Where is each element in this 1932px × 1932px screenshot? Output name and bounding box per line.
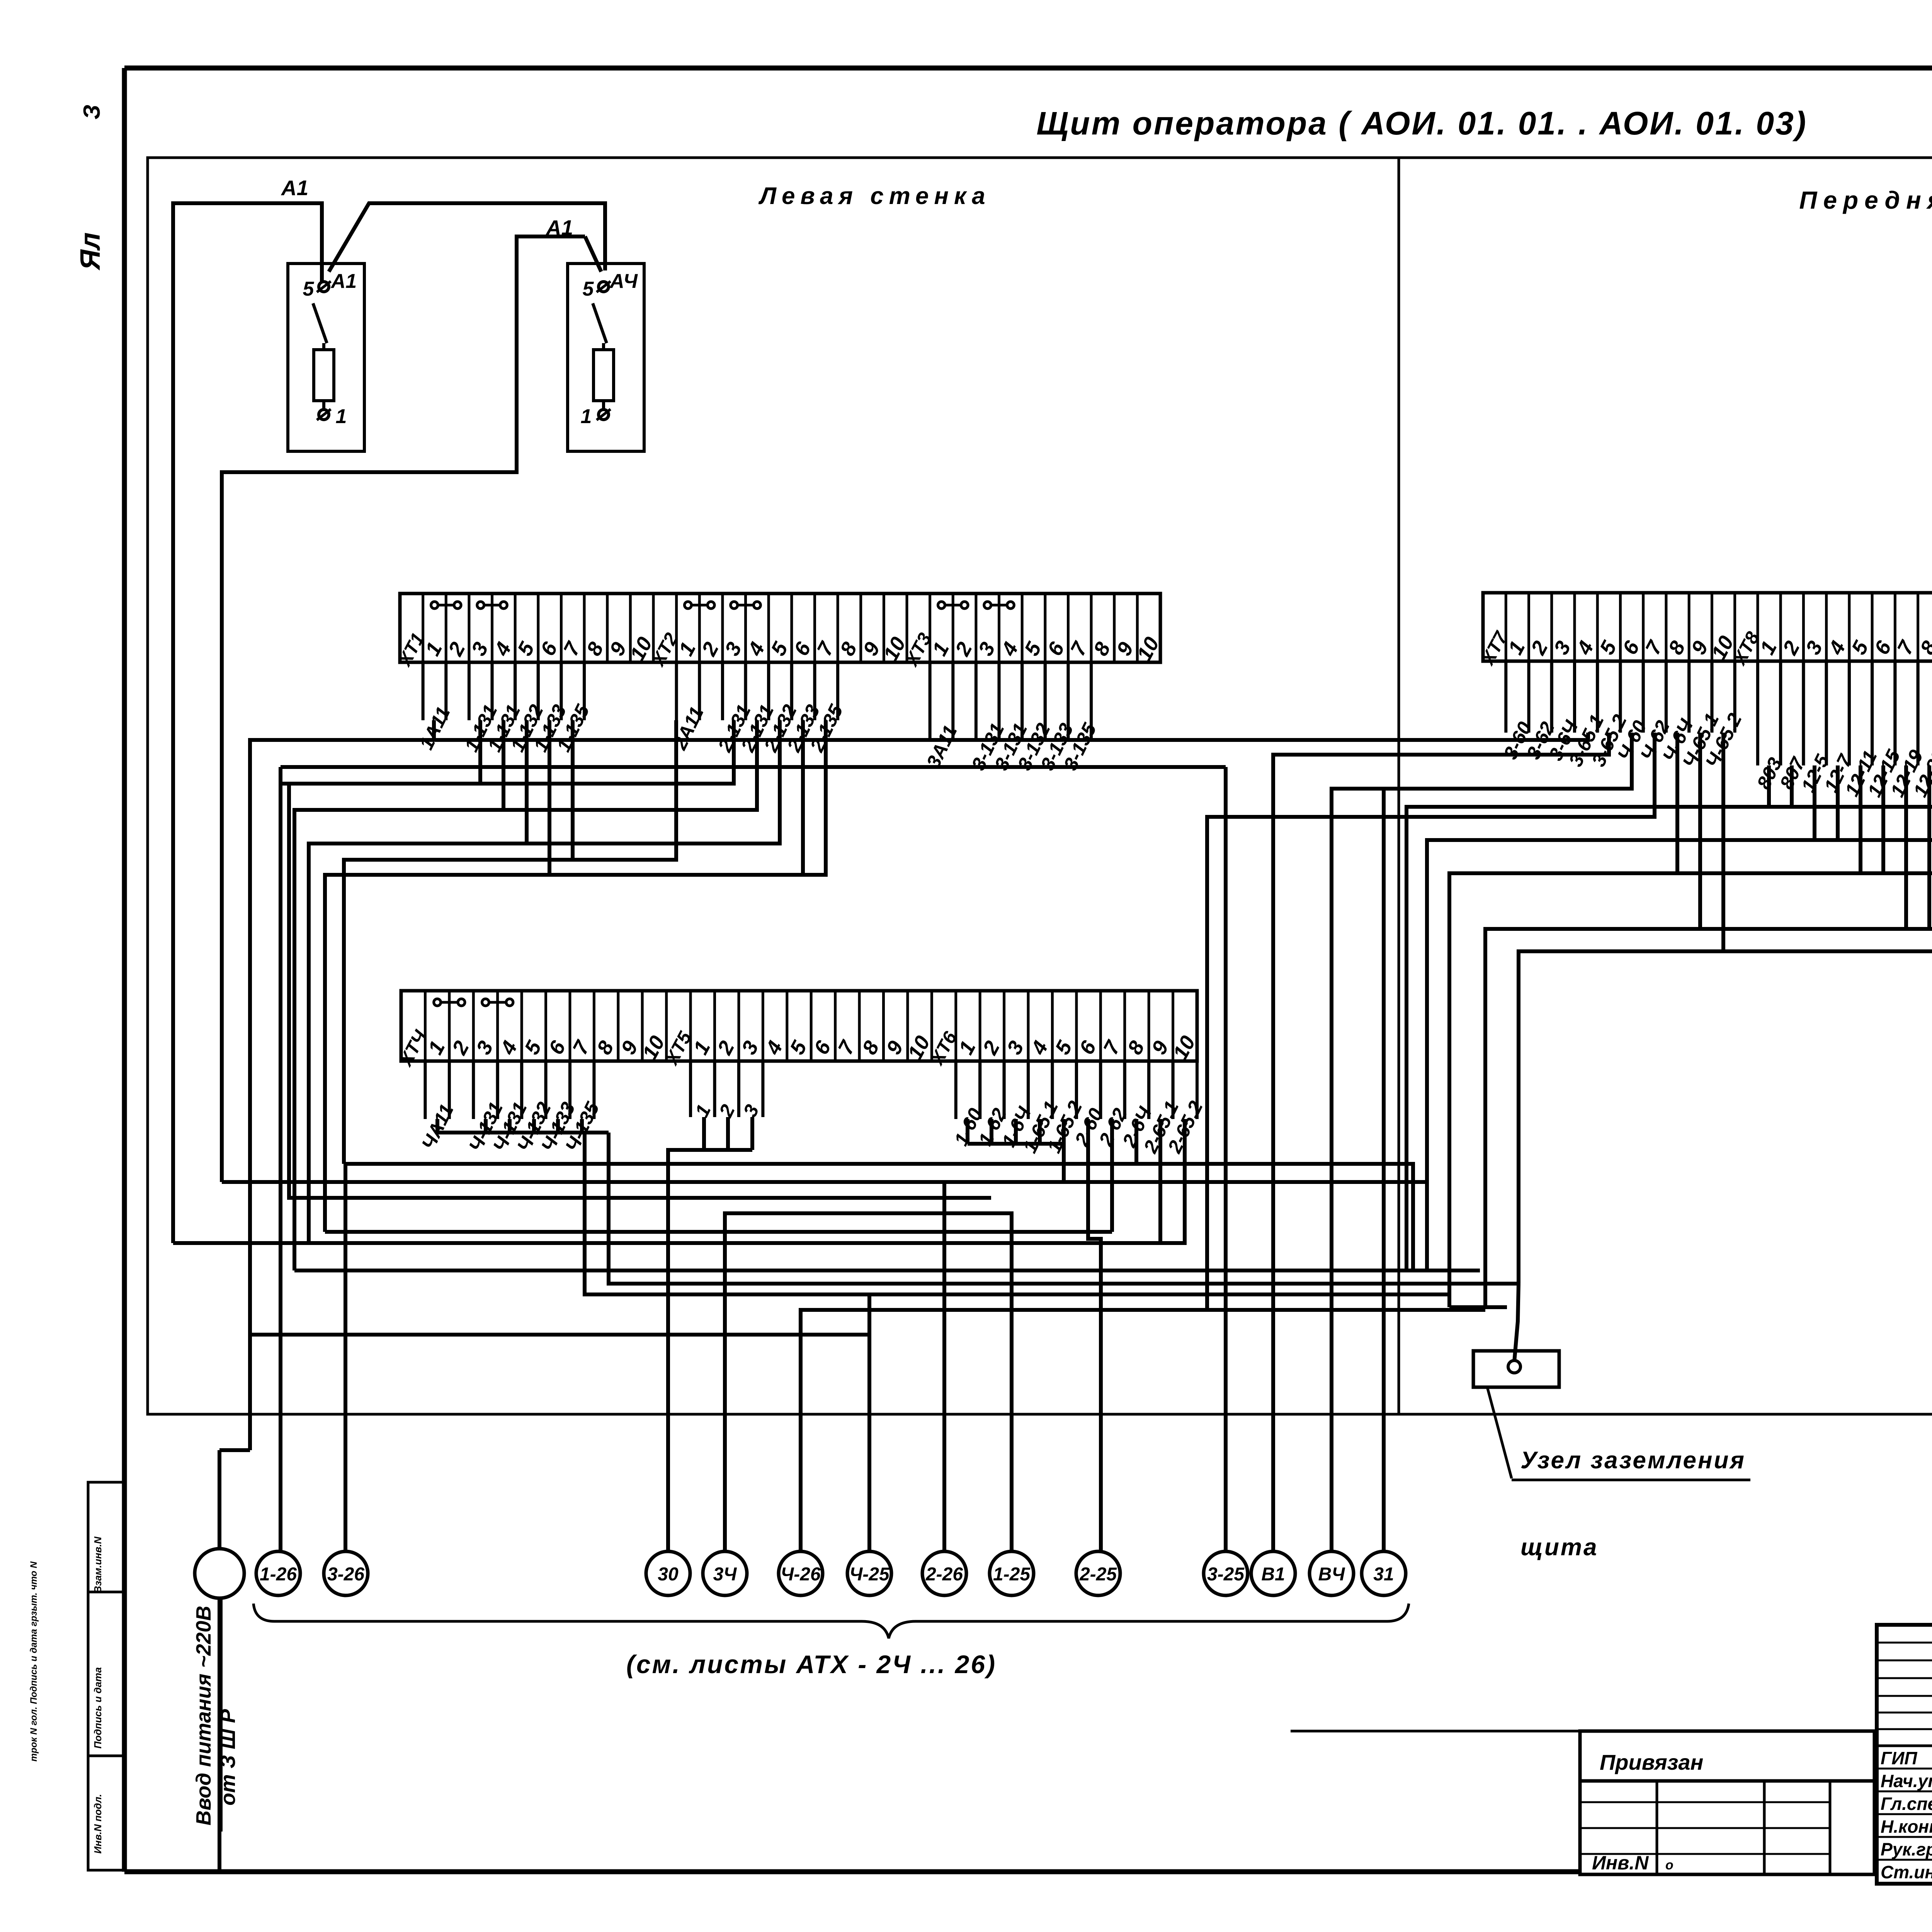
svg-text:о: о xyxy=(1665,1858,1673,1872)
svg-text:Привязан: Привязан xyxy=(1600,1750,1703,1774)
svg-text:1-25: 1-25 xyxy=(993,1564,1031,1585)
svg-text:9: 9 xyxy=(605,638,631,660)
svg-text:2: 2 xyxy=(978,1037,1004,1059)
svg-text:3А11: 3А11 xyxy=(922,722,961,772)
svg-text:Подпись и дата: Подпись и дата xyxy=(92,1667,104,1749)
svg-text:Инв.N подл.: Инв.N подл. xyxy=(92,1794,104,1854)
svg-text:Ял: Ял xyxy=(75,232,106,270)
svg-text:Ч-26: Ч-26 xyxy=(781,1564,821,1585)
svg-text:2: 2 xyxy=(697,638,723,660)
svg-text:5: 5 xyxy=(583,278,594,300)
svg-text:6: 6 xyxy=(810,1037,836,1058)
svg-text:5: 5 xyxy=(513,638,539,660)
svg-text:3: 3 xyxy=(1002,1037,1028,1058)
svg-text:6: 6 xyxy=(1043,638,1069,660)
svg-text:Узел заземления: Узел заземления xyxy=(1520,1447,1746,1474)
svg-text:7: 7 xyxy=(1641,636,1667,658)
svg-text:6: 6 xyxy=(1870,637,1896,658)
svg-text:3: 3 xyxy=(720,638,746,660)
svg-text:8: 8 xyxy=(835,638,861,660)
svg-text:6: 6 xyxy=(1618,637,1645,658)
svg-text:1: 1 xyxy=(928,638,954,660)
svg-text:Нач.утд: Нач.утд xyxy=(1881,1771,1932,1791)
svg-text:Гл.спец.: Гл.спец. xyxy=(1881,1794,1932,1814)
svg-text:8: 8 xyxy=(592,1037,618,1058)
svg-text:2: 2 xyxy=(1526,637,1553,659)
svg-text:1: 1 xyxy=(689,1037,715,1058)
svg-text:7: 7 xyxy=(1066,638,1092,660)
svg-text:ВЧ: ВЧ xyxy=(1318,1564,1345,1585)
svg-text:8: 8 xyxy=(1123,1037,1149,1058)
svg-text:4: 4 xyxy=(1026,1037,1053,1059)
svg-text:4: 4 xyxy=(997,638,1023,660)
svg-text:Рук.гр.: Рук.гр. xyxy=(1881,1839,1932,1859)
svg-text:2: 2 xyxy=(713,1037,739,1059)
svg-text:1: 1 xyxy=(1755,637,1781,658)
svg-text:8: 8 xyxy=(1089,638,1115,660)
svg-text:8: 8 xyxy=(1664,637,1690,658)
svg-text:3: 3 xyxy=(1801,637,1827,658)
svg-text:4: 4 xyxy=(490,638,516,660)
svg-text:31: 31 xyxy=(1373,1564,1394,1585)
svg-text:7: 7 xyxy=(833,1036,860,1058)
svg-text:5: 5 xyxy=(1051,1037,1077,1058)
svg-text:3: 3 xyxy=(472,1037,498,1058)
svg-text:4: 4 xyxy=(496,1037,522,1059)
svg-text:Ст.инж.: Ст.инж. xyxy=(1881,1862,1932,1882)
svg-text:6: 6 xyxy=(789,638,816,660)
svg-text:1: 1 xyxy=(421,638,447,660)
svg-text:1: 1 xyxy=(336,405,347,428)
svg-text:З: З xyxy=(79,105,105,120)
svg-text:2: 2 xyxy=(447,1037,474,1059)
svg-text:7: 7 xyxy=(568,1036,595,1058)
svg-text:1: 1 xyxy=(954,1037,980,1058)
svg-text:8: 8 xyxy=(582,638,608,660)
svg-text:Взам.инв.N: Взам.инв.N xyxy=(92,1536,104,1593)
svg-text:трок N гол. Подпись и дата грз: трок N гол. Подпись и дата грзыт. что N xyxy=(29,1561,39,1761)
svg-text:4: 4 xyxy=(743,638,769,660)
svg-text:3: 3 xyxy=(1549,637,1575,658)
svg-text:5: 5 xyxy=(1020,638,1046,660)
svg-text:5: 5 xyxy=(1847,637,1873,658)
svg-text:Ч-25: Ч-25 xyxy=(849,1564,890,1585)
svg-text:4: 4 xyxy=(1572,637,1599,659)
svg-text:9: 9 xyxy=(1147,1037,1173,1058)
svg-text:9: 9 xyxy=(617,1037,643,1058)
svg-text:7: 7 xyxy=(1893,636,1919,658)
svg-text:Щит оператора ( АОИ. 01. 01.: Щит оператора ( АОИ. 01. 01. . АОИ. 01. … xyxy=(1036,105,1808,141)
svg-text:Ввод питания ~220В: Ввод питания ~220В xyxy=(192,1606,215,1826)
svg-text:1: 1 xyxy=(423,1037,449,1058)
svg-text:1: 1 xyxy=(1503,637,1529,658)
svg-text:9: 9 xyxy=(1112,638,1138,660)
svg-text:3-26: 3-26 xyxy=(327,1564,364,1585)
svg-text:2: 2 xyxy=(444,638,470,660)
svg-text:6: 6 xyxy=(544,1037,570,1058)
svg-text:щита: щита xyxy=(1520,1534,1598,1561)
svg-text:3Ч: 3Ч xyxy=(713,1564,737,1585)
svg-text:2: 2 xyxy=(1778,637,1804,659)
svg-text:А1: А1 xyxy=(281,176,308,200)
svg-text:6: 6 xyxy=(536,638,562,660)
svg-text:2: 2 xyxy=(951,638,977,660)
svg-text:5: 5 xyxy=(767,638,793,660)
svg-text:3: 3 xyxy=(737,1037,763,1058)
svg-text:В1: В1 xyxy=(1261,1564,1285,1585)
svg-text:(см. листы АТХ - 2Ч ... 26): (см. листы АТХ - 2Ч ... 26) xyxy=(626,1650,997,1679)
svg-text:9: 9 xyxy=(1687,637,1713,658)
svg-text:1: 1 xyxy=(674,638,700,660)
svg-text:АЧ: АЧ xyxy=(609,270,638,293)
svg-text:2-25: 2-25 xyxy=(1079,1564,1117,1585)
svg-text:5: 5 xyxy=(786,1037,812,1058)
svg-text:7: 7 xyxy=(559,638,585,660)
svg-text:1: 1 xyxy=(581,405,592,428)
svg-text:Н.контр: Н.контр xyxy=(1881,1816,1932,1837)
svg-text:5: 5 xyxy=(1595,637,1621,658)
svg-text:6: 6 xyxy=(1075,1037,1101,1058)
svg-text:3: 3 xyxy=(974,638,1000,660)
svg-text:А1: А1 xyxy=(330,270,357,293)
svg-text:4: 4 xyxy=(1824,637,1850,659)
svg-text:2-26: 2-26 xyxy=(925,1564,963,1585)
svg-text:1-26: 1-26 xyxy=(260,1564,297,1585)
svg-text:Инв.N: Инв.N xyxy=(1592,1852,1649,1874)
svg-text:от З Ш Р: от З Ш Р xyxy=(216,1709,240,1806)
svg-text:7: 7 xyxy=(1099,1036,1125,1058)
svg-text:ГИП: ГИП xyxy=(1881,1748,1917,1768)
svg-text:9: 9 xyxy=(859,638,884,660)
svg-text:30: 30 xyxy=(658,1564,679,1585)
svg-text:3: 3 xyxy=(467,638,493,660)
svg-text:Передняя стенка: Передняя стенка xyxy=(1799,186,1932,214)
svg-text:Левая стенка: Левая стенка xyxy=(758,183,990,209)
svg-text:9: 9 xyxy=(882,1037,908,1058)
svg-text:8: 8 xyxy=(858,1037,884,1058)
svg-text:3-25: 3-25 xyxy=(1207,1564,1245,1585)
svg-text:4: 4 xyxy=(761,1037,787,1059)
svg-text:5: 5 xyxy=(520,1037,546,1058)
svg-text:7: 7 xyxy=(813,638,839,660)
svg-text:5: 5 xyxy=(303,278,315,300)
